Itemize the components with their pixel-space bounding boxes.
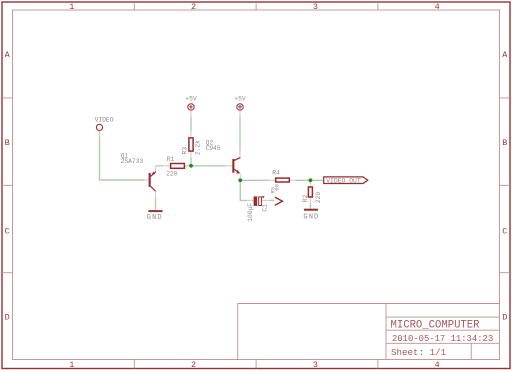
svg-text:100µF: 100µF — [247, 203, 254, 222]
svg-text:3: 3 — [313, 360, 318, 370]
svg-text:2: 2 — [191, 2, 196, 12]
svg-text:4: 4 — [435, 2, 440, 12]
svg-text:D: D — [5, 313, 10, 323]
svg-text:R3: R3 — [182, 147, 189, 155]
svg-text:+5V: +5V — [185, 96, 197, 103]
svg-text:1: 1 — [69, 360, 74, 370]
svg-text:R1: R1 — [167, 156, 175, 163]
svg-text:B: B — [5, 138, 10, 148]
svg-text:2SA733: 2SA733 — [121, 158, 144, 165]
svg-text:4: 4 — [435, 360, 440, 370]
svg-text:C1: C1 — [262, 204, 269, 212]
svg-text:R4: R4 — [272, 169, 280, 176]
svg-text:R2: R2 — [302, 195, 309, 203]
svg-text:220: 220 — [315, 192, 322, 204]
svg-text:2: 2 — [191, 360, 196, 370]
svg-text:B: B — [502, 138, 507, 148]
svg-text:MICRO_COMPUTER: MICRO_COMPUTER — [391, 320, 481, 332]
svg-text:68: 68 — [273, 184, 280, 191]
svg-text:VIDEO OUT: VIDEO OUT — [326, 177, 361, 184]
svg-text:2.2k: 2.2k — [195, 140, 202, 155]
svg-text:A: A — [5, 50, 11, 60]
svg-text:C: C — [5, 227, 10, 237]
svg-text:GND: GND — [147, 214, 163, 222]
svg-text:1: 1 — [69, 2, 74, 12]
svg-text:+5V: +5V — [234, 96, 246, 103]
svg-text:D: D — [502, 313, 507, 323]
svg-text:GND: GND — [303, 214, 319, 222]
svg-text:C: C — [502, 227, 507, 237]
svg-text:2010-05-17 11:34:23: 2010-05-17 11:34:23 — [392, 334, 493, 344]
svg-text:Sheet: 1/1: Sheet: 1/1 — [391, 347, 447, 358]
svg-text:VIDEO: VIDEO — [95, 116, 114, 123]
svg-text:220: 220 — [166, 170, 178, 177]
svg-text:C945: C945 — [206, 145, 221, 152]
svg-text:A: A — [502, 50, 508, 60]
svg-text:3: 3 — [313, 2, 318, 12]
